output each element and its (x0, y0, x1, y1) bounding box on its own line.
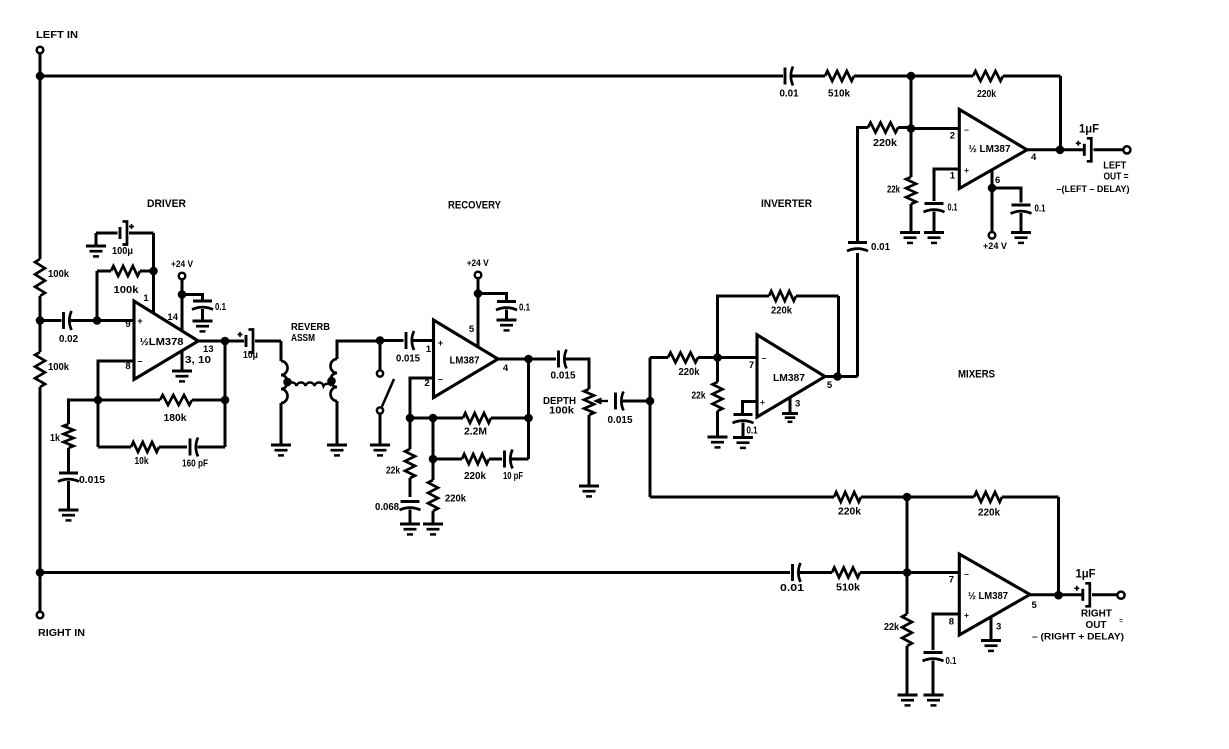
label 100k bias (114, 284, 139, 296)
label pin 2 mixer (950, 131, 955, 142)
ground 22k left mixer (900, 233, 920, 243)
node left-in junction (36, 72, 45, 81)
wire right fb down (1057, 497, 1060, 595)
wire to 0.1 recovery (478, 294, 507, 302)
wire 0.01 up to 220k row (858, 128, 869, 243)
svg-text:0.015: 0.015 (396, 353, 420, 365)
node right output (1054, 591, 1063, 600)
label 22k recovery (386, 465, 400, 477)
capacitor 0.01 left input (785, 67, 793, 86)
svg-text:+24 V: +24 V (467, 258, 490, 269)
wire divider to 0.02 cap (40, 319, 62, 322)
svg-text:1μF: 1μF (1079, 124, 1099, 136)
node right mixer input (903, 568, 912, 577)
node feedback left (94, 396, 103, 405)
capacitor 0.1 recovery supply (496, 302, 517, 311)
node feedback right (221, 396, 230, 405)
svg-text:DRIVER: DRIVER (147, 198, 186, 210)
node switch junction (376, 336, 385, 345)
svg-text:0.1: 0.1 (747, 426, 758, 437)
op-amp U1 half LM378 driver (134, 301, 198, 380)
ground 0.1 left bias (924, 233, 944, 243)
svg-text:=: = (1119, 619, 1123, 625)
wire pin 6 (991, 170, 994, 188)
label pin 5 right (1032, 600, 1038, 611)
wire pin 2 wire (410, 378, 434, 418)
svg-text:+: + (964, 165, 969, 175)
svg-text:+24 V: +24 V (983, 241, 1008, 252)
svg-text:3: 3 (996, 622, 1001, 633)
label 510k left (828, 88, 850, 100)
label RIGHT (1081, 608, 1113, 620)
svg-text:1: 1 (426, 344, 432, 355)
label ASSM (291, 332, 315, 344)
node A top (907, 72, 916, 81)
wire to driver coil (280, 341, 283, 361)
minus left mixer (964, 125, 969, 135)
node recovery fb right (524, 414, 533, 423)
label MIXERS (958, 369, 995, 381)
label pin 1 driver (143, 293, 149, 304)
plus inverter (760, 397, 765, 407)
svg-text:LM387: LM387 (450, 356, 480, 367)
svg-text:10 pF: 10 pF (503, 470, 523, 482)
node right-in junction (36, 568, 45, 577)
wire driver output (198, 340, 244, 343)
svg-text:+24 V: +24 V (171, 259, 194, 270)
svg-text:100k: 100k (48, 268, 69, 280)
resistor 220k inverter feedback (769, 291, 839, 301)
inductor reverb driver coil (281, 361, 288, 403)
svg-text:5: 5 (469, 324, 475, 335)
capacitor 0.1 driver supply (192, 301, 213, 310)
wire inverter output (825, 375, 858, 378)
ground 0.1 driver (193, 321, 213, 331)
svg-text:0.02: 0.02 (59, 333, 78, 345)
label pin 13 (203, 344, 214, 355)
label 0.015 output (551, 370, 576, 382)
wire to RIGHT OUT (1092, 593, 1117, 596)
capacitor 1uF right output (1074, 583, 1090, 606)
resistor 220k right mixer feedback (907, 492, 1059, 502)
node right mixer top (903, 493, 912, 502)
svg-text:100k: 100k (48, 361, 69, 373)
node recovery fb mid (429, 414, 438, 423)
wire inv fb up (718, 296, 770, 358)
svg-text:510k: 510k (828, 88, 850, 100)
svg-text:3, 10: 3, 10 (185, 355, 212, 366)
wire inv minus to edge (718, 356, 758, 359)
svg-text:7: 7 (749, 360, 754, 371)
wire pickup to switch node (337, 341, 380, 359)
wire node A down (910, 76, 913, 129)
ground depth pot (579, 486, 599, 496)
svg-text:LM387: LM387 (773, 373, 805, 384)
ground pin 3 inverter (782, 414, 798, 422)
label pin 1 mixer (950, 171, 956, 182)
svg-text:–: – (964, 569, 969, 579)
ground bias bypass (86, 246, 106, 256)
svg-text:0.015: 0.015 (551, 370, 576, 382)
wire pickup coil to gnd (336, 401, 339, 444)
svg-text:0.01: 0.01 (780, 582, 804, 594)
svg-text:22k: 22k (884, 621, 899, 633)
label 220k right fb (978, 507, 1000, 519)
wire pin 1 branch (934, 169, 959, 201)
wire bias gnd stub (95, 233, 98, 245)
inductor reverb pickup coil (331, 359, 337, 401)
label 220k right delay (838, 506, 861, 518)
resistor 220k recovery gnd (428, 480, 438, 523)
wire 1k top lead (69, 400, 99, 424)
node recovery output (524, 355, 533, 364)
label 22k left mixer (887, 184, 900, 196)
label 180k (164, 412, 187, 424)
label 220k inv fb (771, 305, 792, 317)
label 100k upper (48, 268, 69, 280)
switch arm (382, 379, 394, 407)
label 0.1 driver (215, 301, 226, 313)
wire pin 3 10 (181, 351, 184, 371)
label 22k inverter (692, 390, 706, 402)
capacitor 1uF left output (1076, 138, 1092, 161)
resistor 180k feedback (98, 395, 225, 405)
capacitor 0.1 inverter bias (733, 415, 754, 424)
label 10k (135, 455, 149, 467)
label 1k (50, 432, 60, 444)
svg-text:RIGHT IN: RIGHT IN (38, 627, 85, 639)
terminal LEFT OUT (1123, 146, 1130, 153)
label RECOVERY (448, 200, 502, 212)
wire 10uF to reverb coil (255, 340, 281, 343)
label 0.02 (59, 333, 78, 345)
resistor 22k left mixer (906, 129, 916, 232)
svg-text:0.1: 0.1 (946, 655, 957, 667)
node +24V driver (178, 290, 187, 299)
minus right mixer (964, 569, 969, 579)
svg-text:13: 13 (203, 344, 214, 355)
svg-text:220k: 220k (464, 470, 486, 482)
wire 0.015 to depth (566, 359, 590, 389)
svg-text:0.1: 0.1 (948, 202, 958, 214)
resistor 10k (98, 442, 187, 452)
op-amp U4 half LM387 left mixer (959, 109, 1027, 188)
capacitor 0.1 left bias (924, 204, 945, 213)
resistor 510k right (800, 568, 908, 578)
label +24V left mixer (983, 241, 1008, 252)
svg-text:9: 9 (125, 319, 130, 330)
label pin 5 recovery (469, 324, 475, 335)
node +24V recovery (474, 289, 483, 298)
terminal +24V driver (179, 273, 186, 280)
wire recovery right column (527, 359, 530, 459)
minus recovery (438, 374, 443, 384)
node driver output (221, 337, 230, 346)
label pin 3 inverter (795, 399, 800, 410)
op-amp U5 half LM387 right mixer (959, 554, 1030, 635)
label 0.01 left (780, 88, 799, 100)
capacitor 0.015 depth wiper (616, 392, 624, 411)
svg-text:+: + (438, 338, 443, 348)
svg-text:180k: 180k (164, 412, 187, 424)
node inverter output (833, 372, 842, 381)
wire pin6 to +24V (991, 188, 994, 232)
label 220k inv input (679, 366, 700, 378)
label 10uF (243, 349, 258, 361)
wire fb mid down (432, 418, 435, 459)
wire left divider upper (39, 76, 42, 259)
svg-text:220k: 220k (978, 507, 1000, 519)
wire wiper cap to junction (623, 400, 651, 403)
wire pin 8 input (98, 361, 134, 400)
wire right mixer output (1030, 593, 1082, 596)
ground pickup coil (327, 445, 347, 455)
node divider junction (36, 316, 45, 325)
node recovery fb left (406, 414, 415, 423)
wire right mixer column (906, 497, 909, 573)
wire bias top left (96, 232, 118, 235)
resistor 220k inverter input (650, 353, 718, 363)
capacitor 10pF (505, 450, 513, 469)
svg-text:22k: 22k (692, 390, 706, 402)
wire top rail (40, 75, 783, 78)
label pin 2 recovery (424, 378, 429, 389)
minus inverter (762, 353, 767, 363)
label 0.1 recovery (519, 302, 530, 314)
svg-text:+: + (760, 397, 765, 407)
label 1uF right (1076, 569, 1096, 581)
svg-text:1k: 1k (50, 432, 60, 444)
label pin 4 recovery (503, 363, 509, 374)
label DEPTH (543, 395, 576, 407)
label 100k depth (549, 405, 574, 417)
wire LEFT IN stub (39, 54, 42, 77)
resistor 22k right mixer (902, 573, 912, 695)
svg-text:220k: 220k (838, 506, 861, 518)
wire inv 0.1 gnd stub (742, 423, 745, 437)
resistor 220k left mixer inv input (868, 123, 911, 133)
label pin 8 right (949, 617, 954, 628)
wire inv fb down (837, 296, 840, 377)
svg-text:0.015: 0.015 (608, 414, 633, 426)
label 220k left fb (977, 88, 996, 100)
label RIGHT IN (38, 627, 85, 639)
svg-text:220k: 220k (679, 366, 700, 378)
wire output to feedback (224, 341, 227, 447)
svg-text:6: 6 (995, 175, 1000, 186)
label right delay (1032, 632, 1124, 643)
wire switch to gnd (379, 414, 382, 444)
label LEFT OUT eq (1104, 171, 1129, 183)
potentiometer DEPTH 100k (584, 389, 594, 485)
capacitor 10uF coupling (238, 330, 254, 353)
svg-text:0.1: 0.1 (1035, 203, 1046, 215)
resistor 2.2M feedback (410, 413, 529, 423)
node driver + input (93, 316, 102, 325)
svg-text:0.068: 0.068 (375, 501, 399, 513)
terminal RIGHT IN (37, 612, 44, 619)
ground 0.068 (400, 524, 420, 534)
svg-text:1μF: 1μF (1076, 569, 1096, 581)
svg-text:+: + (964, 610, 969, 620)
node inverter minus (713, 353, 722, 362)
label 510k right (836, 582, 860, 594)
resistor 510k left (792, 71, 911, 81)
wire switch stub (379, 341, 382, 371)
plus sign driver (137, 316, 142, 326)
resistor 220k ac gain (433, 454, 502, 464)
wire inverter output rise (856, 253, 859, 377)
svg-text:220k: 220k (445, 493, 466, 505)
svg-text:1: 1 (950, 171, 956, 182)
capacitor 100uF bias (120, 222, 134, 245)
label 0.1 right bias (946, 655, 957, 667)
resistor 100k bias (97, 266, 154, 276)
node driver coil tap (283, 378, 292, 387)
label pin 7 right (949, 575, 954, 586)
label pin 9 (125, 319, 130, 330)
label DRIVER (147, 198, 186, 210)
ground 0.1 right bias (924, 695, 944, 705)
wire +24V to pin14 node (181, 280, 184, 295)
wire pin 3 right (990, 618, 993, 640)
label +24V recovery (467, 258, 490, 269)
svg-text:10μ: 10μ (243, 349, 258, 361)
op-amp U2 LM387 recovery (434, 320, 499, 398)
label pin 1 recovery (426, 344, 432, 355)
wire 0.1 left bias gnd stub (933, 212, 936, 232)
capacitor 0.1 right bias (923, 653, 944, 662)
switch contact upper (377, 370, 383, 376)
label pin 3 right (996, 622, 1001, 633)
wire 0.015 to pin 1 (413, 339, 434, 342)
resistor 22k recovery (405, 418, 415, 497)
label 0.015 wiper (608, 414, 633, 426)
label pin 4 mixer (1031, 152, 1037, 163)
svg-text:8: 8 (949, 617, 954, 628)
svg-text:5: 5 (1032, 600, 1038, 611)
svg-text:MIXERS: MIXERS (958, 369, 995, 381)
label pin 5 inverter (827, 380, 833, 391)
wire left divider lower lead (39, 321, 42, 353)
node pin 6 (988, 184, 997, 193)
ground pin 3 right (981, 641, 1001, 651)
label INVERTER (761, 198, 812, 210)
label pin 8 (125, 361, 130, 372)
svg-text:0.1: 0.1 (215, 301, 226, 313)
svg-text:160 pF: 160 pF (182, 458, 208, 470)
svg-text:OUT: OUT (1086, 619, 1108, 631)
wire 0.015 gnd stub (67, 481, 70, 509)
label right eq (1119, 619, 1123, 625)
svg-text:RIGHT: RIGHT (1081, 608, 1113, 620)
svg-text:RECOVERY: RECOVERY (448, 200, 502, 212)
svg-text:OUT =: OUT = (1104, 171, 1129, 183)
capacitor 0.015 recovery output (559, 350, 567, 369)
wire RIGHT IN stub (39, 573, 42, 612)
label 10pF (503, 470, 523, 482)
node pickup coil tap (327, 377, 336, 386)
label 220k gnd (445, 493, 466, 505)
label 0.1 left supply (1035, 203, 1046, 215)
label 100uF (112, 245, 133, 257)
wire pin6 to 0.1 (992, 188, 1021, 203)
svg-text:ASSM: ASSM (291, 332, 315, 344)
wire right node to edge (907, 571, 959, 574)
resistor 22k inverter (713, 358, 723, 437)
svg-text:2: 2 (424, 378, 429, 389)
capacitor 0.015 driver (58, 473, 79, 482)
capacitor 0.01 inverter coupling (847, 243, 868, 252)
ground 1k branch (59, 510, 79, 520)
label pin 6 (995, 175, 1000, 186)
svg-text:220k: 220k (977, 88, 996, 100)
svg-text:100k: 100k (114, 284, 139, 296)
ground 0.1 inverter (733, 438, 753, 448)
label 100k lower (48, 361, 69, 373)
wire left fb down (1059, 76, 1062, 150)
ground driver coil (271, 445, 291, 455)
label 0.015 recovery input (396, 353, 420, 365)
ground 22k right mixer (898, 695, 918, 705)
capacitor 0.015 recovery input (406, 331, 414, 350)
label LEFT (1103, 160, 1127, 172)
capacitor 0.068 (400, 502, 421, 511)
svg-text:0.1: 0.1 (519, 302, 530, 314)
svg-text:0.01: 0.01 (780, 88, 799, 100)
svg-text:LEFT IN: LEFT IN (36, 29, 78, 41)
svg-text:2.2M: 2.2M (464, 426, 487, 438)
svg-text:½ LM387: ½ LM387 (968, 591, 1008, 602)
ground 220k recovery (423, 524, 443, 534)
svg-text:10k: 10k (135, 455, 149, 467)
wire +24V recovery stub (477, 279, 480, 294)
svg-text:510k: 510k (836, 582, 860, 594)
wire 160pF to output column (198, 446, 226, 449)
svg-text:–: – (964, 125, 969, 135)
label 160pF (182, 458, 208, 470)
svg-text:8: 8 (125, 361, 130, 372)
label REVERB (291, 321, 330, 333)
wire minus branch vertical (97, 400, 100, 447)
svg-text:22k: 22k (887, 184, 900, 196)
node left output (1056, 146, 1065, 155)
label 0.1 inverter (747, 426, 758, 437)
node B mixer input (907, 124, 916, 133)
label 1uF left (1079, 124, 1099, 136)
svg-text:22k: 22k (386, 465, 400, 477)
resistor 220k left mixer feedback (911, 71, 1061, 81)
label 0.068 (375, 501, 399, 513)
resistor 1k (64, 424, 74, 473)
wire pin 8 branch (933, 614, 959, 650)
svg-text:7: 7 (949, 575, 954, 586)
wire driver coil to gnd (280, 403, 283, 444)
label left delay (1057, 184, 1130, 195)
wire left mixer output (1027, 148, 1083, 151)
svg-text:2: 2 (950, 131, 955, 142)
wire 0.1 left supply gnd (1020, 213, 1023, 232)
label LEFT IN (36, 29, 78, 41)
svg-text:4: 4 (1031, 152, 1037, 163)
label pin 7 inverter (749, 360, 754, 371)
label 0.01 inverter (871, 241, 890, 253)
spring coil reverb (288, 383, 332, 386)
svg-text:0.01: 0.01 (871, 241, 890, 253)
label pin 14 (167, 312, 178, 323)
node 220k 10pF row (429, 455, 438, 464)
svg-text:–: – (137, 356, 142, 366)
